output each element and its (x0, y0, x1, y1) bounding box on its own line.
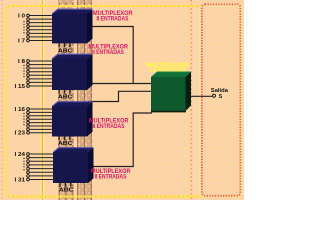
svg-text:I 23: I 23 (15, 131, 26, 137)
svg-text:ABC: ABC (59, 188, 74, 194)
svg-text:ABC: ABC (58, 94, 73, 100)
svg-text:I 8: I 8 (18, 59, 25, 65)
svg-text:8 ENTRADAS: 8 ENTRADAS (93, 123, 126, 130)
svg-text:8 ENTRADAS: 8 ENTRADAS (92, 49, 125, 56)
svg-text:I 31: I 31 (15, 177, 26, 183)
svg-text:I 15: I 15 (15, 84, 26, 90)
svg-text:ABC: ABC (58, 141, 73, 147)
svg-text:I 0: I 0 (18, 13, 25, 19)
svg-text:I 24: I 24 (15, 152, 26, 158)
svg-text:S: S (219, 94, 223, 100)
svg-text:ABC: ABC (58, 48, 73, 54)
svg-text:I 7: I 7 (18, 38, 25, 44)
svg-text:8 ENTRADAS: 8 ENTRADAS (95, 173, 128, 180)
svg-text:8 ENTRADAS: 8 ENTRADAS (97, 16, 130, 23)
svg-text:I 16: I 16 (15, 107, 26, 113)
